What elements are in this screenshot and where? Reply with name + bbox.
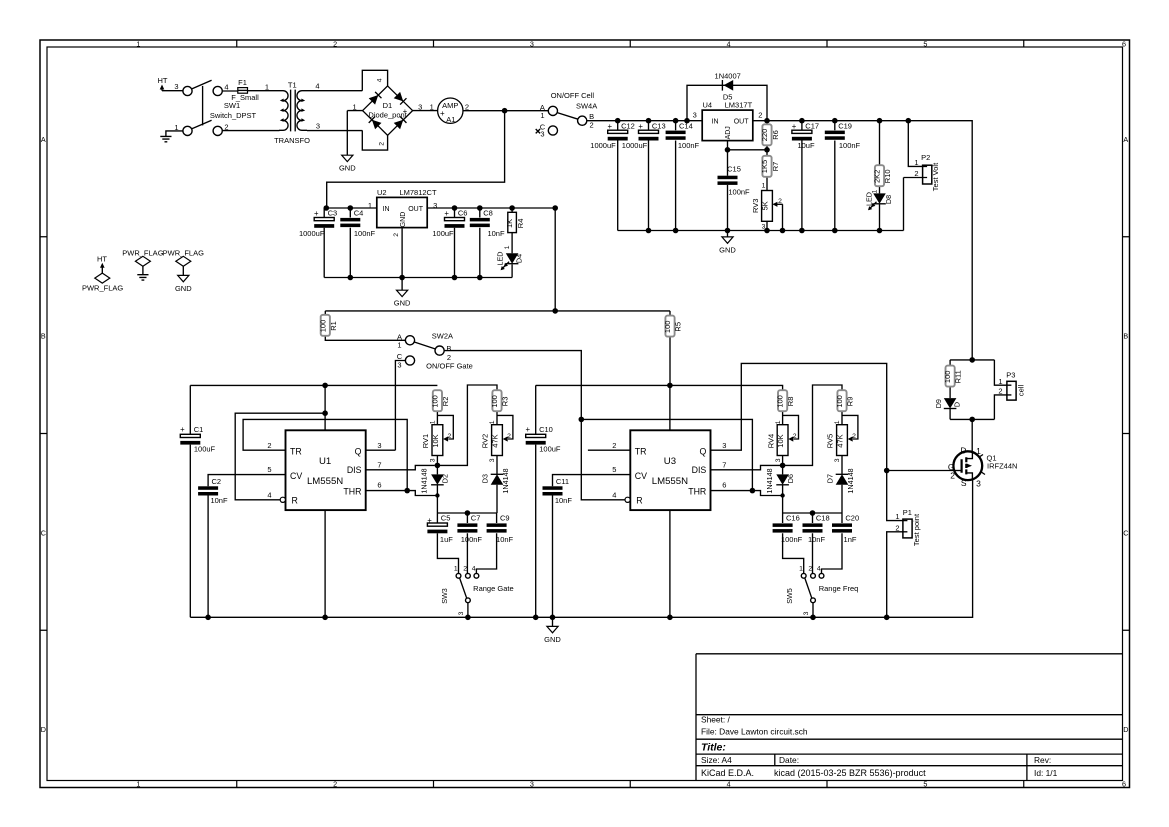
svg-text:6: 6 xyxy=(722,480,726,489)
svg-text:GND: GND xyxy=(339,164,356,173)
svg-text:5: 5 xyxy=(267,465,271,474)
svg-text:2K2: 2K2 xyxy=(873,170,882,183)
svg-text:C18: C18 xyxy=(816,514,830,523)
svg-text:Range Gate: Range Gate xyxy=(473,584,513,593)
svg-text:C20: C20 xyxy=(845,514,859,523)
svg-text:+: + xyxy=(314,209,319,218)
svg-text:1: 1 xyxy=(454,566,458,573)
svg-text:4: 4 xyxy=(267,491,271,500)
svg-text:4: 4 xyxy=(377,78,384,82)
svg-text:C3: C3 xyxy=(328,208,338,217)
svg-text:3: 3 xyxy=(418,103,422,112)
svg-text:D1: D1 xyxy=(383,101,393,110)
svg-text:100nF: 100nF xyxy=(461,535,483,544)
svg-text:U4: U4 xyxy=(703,101,713,110)
svg-text:3: 3 xyxy=(458,611,465,615)
svg-text:Size: A4: Size: A4 xyxy=(701,755,732,765)
svg-text:RV4: RV4 xyxy=(766,434,775,448)
svg-text:C15: C15 xyxy=(727,165,741,174)
svg-text:2: 2 xyxy=(448,433,452,440)
svg-text:Id: 1/1: Id: 1/1 xyxy=(1034,768,1058,778)
svg-text:LED: LED xyxy=(865,192,874,206)
svg-text:2: 2 xyxy=(333,779,337,788)
svg-text:GND: GND xyxy=(719,245,736,254)
svg-text:1: 1 xyxy=(397,340,401,349)
svg-text:B: B xyxy=(41,332,46,341)
svg-text:GND: GND xyxy=(394,299,411,308)
svg-text:IN: IN xyxy=(712,118,719,125)
svg-text:3: 3 xyxy=(976,478,981,488)
svg-text:3: 3 xyxy=(530,39,534,48)
svg-text:D9: D9 xyxy=(934,399,943,408)
svg-text:3: 3 xyxy=(722,441,726,450)
svg-text:1K5: 1K5 xyxy=(760,160,769,173)
svg-text:D5: D5 xyxy=(723,93,733,102)
svg-text:P1: P1 xyxy=(903,508,912,517)
svg-text:1N4148: 1N4148 xyxy=(501,468,510,493)
svg-text:1: 1 xyxy=(775,420,782,424)
svg-text:+: + xyxy=(444,209,449,218)
svg-text:2: 2 xyxy=(914,169,918,178)
svg-text:10nF: 10nF xyxy=(808,535,826,544)
svg-text:Title:: Title: xyxy=(701,742,726,754)
svg-text:RV1: RV1 xyxy=(421,434,430,448)
svg-text:SW1: SW1 xyxy=(224,101,240,110)
svg-text:File: Dave Lawton circuit.sch: File: Dave Lawton circuit.sch xyxy=(701,726,808,736)
svg-text:2: 2 xyxy=(852,433,856,440)
svg-text:2: 2 xyxy=(808,566,812,573)
svg-text:Test point: Test point xyxy=(912,513,921,546)
svg-text:C12: C12 xyxy=(621,121,635,130)
svg-text:100uF: 100uF xyxy=(194,445,216,454)
svg-text:1: 1 xyxy=(834,420,841,424)
svg-text:3: 3 xyxy=(489,458,496,462)
svg-text:DIS: DIS xyxy=(347,465,362,475)
svg-text:PWR_FLAG: PWR_FLAG xyxy=(163,249,204,258)
svg-text:1: 1 xyxy=(914,158,918,167)
svg-text:1: 1 xyxy=(430,420,437,424)
svg-text:cell: cell xyxy=(1017,385,1026,397)
svg-text:3: 3 xyxy=(834,458,841,462)
svg-text:Switch_DPST: Switch_DPST xyxy=(210,111,257,120)
svg-text:LED: LED xyxy=(496,252,505,266)
svg-text:1: 1 xyxy=(430,103,434,112)
svg-text:4: 4 xyxy=(727,39,731,48)
svg-text:10nF: 10nF xyxy=(487,229,505,238)
svg-text:+: + xyxy=(180,425,185,434)
svg-text:ADJ: ADJ xyxy=(725,126,732,139)
svg-text:D4: D4 xyxy=(515,254,524,263)
svg-text:TRANSFO: TRANSFO xyxy=(274,136,310,145)
svg-text:GND: GND xyxy=(544,635,561,644)
svg-text:3: 3 xyxy=(433,201,437,210)
svg-text:F1: F1 xyxy=(238,78,247,87)
svg-text:3: 3 xyxy=(540,130,544,139)
svg-text:kicad (2015-03-25 BZR 5536)-pr: kicad (2015-03-25 BZR 5536)-product xyxy=(774,768,926,778)
svg-text:Q: Q xyxy=(699,447,706,457)
svg-text:C13: C13 xyxy=(652,121,666,130)
svg-text:2: 2 xyxy=(378,142,385,146)
svg-text:1000uF: 1000uF xyxy=(299,229,325,238)
svg-text:+: + xyxy=(792,122,797,131)
svg-text:C: C xyxy=(41,528,46,537)
svg-text:A: A xyxy=(41,135,46,144)
svg-text:2: 2 xyxy=(793,433,797,440)
svg-text:+: + xyxy=(427,516,432,525)
svg-text:6: 6 xyxy=(1122,39,1126,48)
svg-text:2: 2 xyxy=(950,471,955,481)
svg-text:R4: R4 xyxy=(516,219,525,229)
svg-text:1N4148: 1N4148 xyxy=(846,468,855,493)
svg-text:3: 3 xyxy=(316,122,320,131)
svg-text:1: 1 xyxy=(976,446,981,456)
svg-text:C6: C6 xyxy=(458,208,468,217)
svg-text:D6: D6 xyxy=(786,474,795,483)
svg-text:D: D xyxy=(41,725,46,734)
svg-text:4: 4 xyxy=(817,566,821,573)
svg-text:1uF: 1uF xyxy=(440,535,453,544)
svg-text:10uF: 10uF xyxy=(797,141,815,150)
svg-text:1: 1 xyxy=(762,182,766,189)
svg-text:3: 3 xyxy=(530,779,534,788)
svg-text:D7: D7 xyxy=(826,474,835,483)
svg-text:+: + xyxy=(608,122,613,131)
svg-text:3: 3 xyxy=(430,458,437,462)
svg-text:2: 2 xyxy=(612,441,616,450)
svg-text:RV2: RV2 xyxy=(481,434,490,448)
svg-text:5: 5 xyxy=(923,779,927,788)
svg-text:2: 2 xyxy=(465,103,469,112)
svg-text:B: B xyxy=(1123,332,1128,341)
svg-text:Test Volt: Test Volt xyxy=(931,162,940,191)
svg-text:100nF: 100nF xyxy=(728,188,750,197)
svg-text:5K: 5K xyxy=(760,201,769,210)
svg-text:D3: D3 xyxy=(481,474,490,483)
svg-text:1000uF: 1000uF xyxy=(622,141,648,150)
svg-text:A: A xyxy=(1123,135,1128,144)
svg-text:TR: TR xyxy=(290,447,302,457)
svg-text:2: 2 xyxy=(998,387,1002,396)
svg-text:Diode_pont: Diode_pont xyxy=(368,111,407,120)
svg-text:47K: 47K xyxy=(491,434,500,447)
svg-text:100: 100 xyxy=(663,321,672,334)
svg-text:3: 3 xyxy=(377,441,381,450)
svg-text:R8: R8 xyxy=(786,397,795,407)
svg-text:LM555N: LM555N xyxy=(307,476,343,487)
svg-text:4: 4 xyxy=(727,779,731,788)
svg-text:+: + xyxy=(440,109,445,118)
svg-text:2: 2 xyxy=(758,110,762,119)
svg-text:LM555N: LM555N xyxy=(652,476,688,487)
svg-text:C10: C10 xyxy=(539,425,553,434)
svg-text:RV3: RV3 xyxy=(751,199,760,213)
svg-text:CV: CV xyxy=(290,471,302,481)
svg-text:1K: 1K xyxy=(505,219,514,228)
svg-text:LM7812CT: LM7812CT xyxy=(399,188,437,197)
svg-text:THR: THR xyxy=(343,486,361,496)
svg-text:3: 3 xyxy=(397,361,401,370)
svg-text:GND: GND xyxy=(175,284,192,293)
svg-text:T1: T1 xyxy=(288,81,297,90)
svg-text:Sheet: /: Sheet: / xyxy=(701,715,731,725)
svg-text:C11: C11 xyxy=(556,477,569,486)
svg-text:P2: P2 xyxy=(921,153,930,162)
svg-text:+: + xyxy=(403,107,408,116)
svg-text:PWR_FLAG: PWR_FLAG xyxy=(82,283,123,292)
svg-text:C1: C1 xyxy=(194,425,204,434)
svg-text:100: 100 xyxy=(776,395,785,408)
svg-text:4: 4 xyxy=(472,566,476,573)
svg-text:3: 3 xyxy=(762,224,766,231)
svg-text:D: D xyxy=(960,445,966,455)
svg-text:1: 1 xyxy=(368,201,372,210)
svg-text:1: 1 xyxy=(265,83,269,92)
svg-text:4: 4 xyxy=(315,82,319,91)
svg-text:1000uF: 1000uF xyxy=(590,141,616,150)
svg-text:R2: R2 xyxy=(441,397,450,407)
svg-text:1: 1 xyxy=(136,39,140,48)
svg-text:100: 100 xyxy=(490,395,499,408)
svg-text:R6: R6 xyxy=(771,130,780,140)
svg-text:LM317T: LM317T xyxy=(725,101,753,110)
svg-text:1: 1 xyxy=(895,512,899,521)
svg-text:1N4148: 1N4148 xyxy=(765,468,774,493)
svg-text:4: 4 xyxy=(612,491,616,500)
svg-text:C4: C4 xyxy=(354,208,364,217)
svg-text:2: 2 xyxy=(507,433,511,440)
svg-text:1N4148: 1N4148 xyxy=(420,468,429,493)
svg-text:U3: U3 xyxy=(664,456,676,467)
svg-text:DIS: DIS xyxy=(692,465,707,475)
svg-text:OUT: OUT xyxy=(734,118,750,125)
svg-text:2: 2 xyxy=(778,198,782,205)
svg-text:220: 220 xyxy=(760,129,769,142)
svg-text:6: 6 xyxy=(377,480,381,489)
svg-text:C17: C17 xyxy=(805,121,819,130)
svg-text:D8: D8 xyxy=(884,195,893,204)
svg-text:1: 1 xyxy=(174,123,178,132)
svg-text:100nF: 100nF xyxy=(354,229,376,238)
svg-text:C19: C19 xyxy=(838,121,852,130)
svg-text:THR: THR xyxy=(688,486,706,496)
svg-text:Date:: Date: xyxy=(779,755,799,765)
svg-text:IN: IN xyxy=(383,206,390,213)
svg-text:2: 2 xyxy=(463,566,467,573)
svg-text:2: 2 xyxy=(393,233,400,237)
svg-text:100nF: 100nF xyxy=(781,535,803,544)
svg-text:HT: HT xyxy=(158,76,168,85)
svg-text:C8: C8 xyxy=(483,208,493,217)
svg-text:R: R xyxy=(292,496,298,506)
svg-text:100: 100 xyxy=(943,371,952,384)
svg-text:R: R xyxy=(636,496,642,506)
svg-text:1nF: 1nF xyxy=(844,535,857,544)
svg-text:7: 7 xyxy=(722,461,726,470)
svg-text:C: C xyxy=(1123,528,1128,537)
svg-text:SW3: SW3 xyxy=(440,588,449,604)
svg-text:R10: R10 xyxy=(883,169,892,183)
svg-text:C9: C9 xyxy=(500,514,510,523)
svg-text:100: 100 xyxy=(318,320,327,333)
svg-text:SW2A: SW2A xyxy=(432,332,453,341)
svg-text:R5: R5 xyxy=(674,322,683,332)
svg-text:R7: R7 xyxy=(771,162,780,172)
svg-text:3: 3 xyxy=(803,611,810,615)
svg-text:HT: HT xyxy=(97,255,107,264)
svg-text:P3: P3 xyxy=(1006,371,1015,380)
svg-text:5: 5 xyxy=(923,39,927,48)
svg-text:C5: C5 xyxy=(441,514,451,523)
svg-text:1: 1 xyxy=(504,245,511,249)
svg-text:D2: D2 xyxy=(441,474,450,483)
svg-text:SW5: SW5 xyxy=(785,588,794,604)
svg-text:+: + xyxy=(526,425,531,434)
svg-text:1N4007: 1N4007 xyxy=(715,72,741,81)
svg-text:OUT: OUT xyxy=(408,206,424,213)
svg-text:C14: C14 xyxy=(679,121,693,130)
svg-text:1: 1 xyxy=(136,779,140,788)
svg-text:100nF: 100nF xyxy=(678,141,700,150)
svg-text:S: S xyxy=(961,478,967,488)
svg-text:47K: 47K xyxy=(836,434,845,447)
svg-text:C7: C7 xyxy=(471,514,481,523)
svg-text:100nF: 100nF xyxy=(839,141,861,150)
svg-text:R1: R1 xyxy=(329,321,338,331)
svg-text:6: 6 xyxy=(1122,779,1126,788)
svg-text:100uF: 100uF xyxy=(432,229,454,238)
svg-text:D: D xyxy=(1123,725,1128,734)
svg-text:10nF: 10nF xyxy=(496,535,514,544)
svg-text:100: 100 xyxy=(430,395,439,408)
svg-text:CV: CV xyxy=(635,471,647,481)
svg-text:IRFZ44N: IRFZ44N xyxy=(987,461,1017,470)
svg-text:R3: R3 xyxy=(500,397,509,407)
svg-text:1: 1 xyxy=(998,377,1002,386)
svg-text:3: 3 xyxy=(174,82,178,91)
svg-text:ON/OFF Gate: ON/OFF Gate xyxy=(426,361,473,370)
svg-text:7: 7 xyxy=(377,461,381,470)
svg-text:10K: 10K xyxy=(431,434,440,447)
svg-text:100: 100 xyxy=(835,395,844,408)
svg-text:5: 5 xyxy=(612,465,616,474)
svg-text:D: D xyxy=(953,402,962,407)
svg-text:1: 1 xyxy=(799,566,803,573)
svg-text:ON/OFF Cell: ON/OFF Cell xyxy=(551,91,595,100)
svg-text:R9: R9 xyxy=(845,397,854,407)
svg-text:R11: R11 xyxy=(954,370,963,383)
svg-text:4: 4 xyxy=(224,83,228,92)
svg-text:U1: U1 xyxy=(319,456,331,467)
svg-text:TR: TR xyxy=(635,447,647,457)
svg-text:PWR_FLAG: PWR_FLAG xyxy=(122,249,163,258)
svg-text:1: 1 xyxy=(353,103,357,112)
svg-text:1: 1 xyxy=(489,420,496,424)
svg-text:2: 2 xyxy=(895,523,899,532)
svg-text:3: 3 xyxy=(693,110,697,119)
svg-text:SW4A: SW4A xyxy=(576,102,597,111)
svg-text:Q: Q xyxy=(355,447,362,457)
svg-text:1: 1 xyxy=(540,111,544,120)
svg-text:2: 2 xyxy=(333,39,337,48)
svg-text:U2: U2 xyxy=(377,188,387,197)
svg-text:10K: 10K xyxy=(776,434,785,447)
svg-text:10nF: 10nF xyxy=(555,496,573,505)
svg-text:A1: A1 xyxy=(446,115,455,124)
svg-text:3: 3 xyxy=(775,458,782,462)
svg-text:100uF: 100uF xyxy=(539,445,561,454)
svg-text:C2: C2 xyxy=(212,477,222,486)
svg-text:C16: C16 xyxy=(786,514,800,523)
svg-text:2: 2 xyxy=(224,123,228,132)
svg-text:+: + xyxy=(638,122,643,131)
svg-text:10nF: 10nF xyxy=(210,496,228,505)
svg-text:B: B xyxy=(589,112,594,121)
svg-text:Range Freq: Range Freq xyxy=(819,584,859,593)
svg-text:2: 2 xyxy=(267,441,271,450)
svg-text:Rev:: Rev: xyxy=(1034,755,1051,765)
svg-text:2: 2 xyxy=(590,121,594,130)
svg-text:GND: GND xyxy=(400,212,407,228)
svg-text:RV5: RV5 xyxy=(826,434,835,448)
svg-text:KiCad E.D.A.: KiCad E.D.A. xyxy=(701,768,754,778)
